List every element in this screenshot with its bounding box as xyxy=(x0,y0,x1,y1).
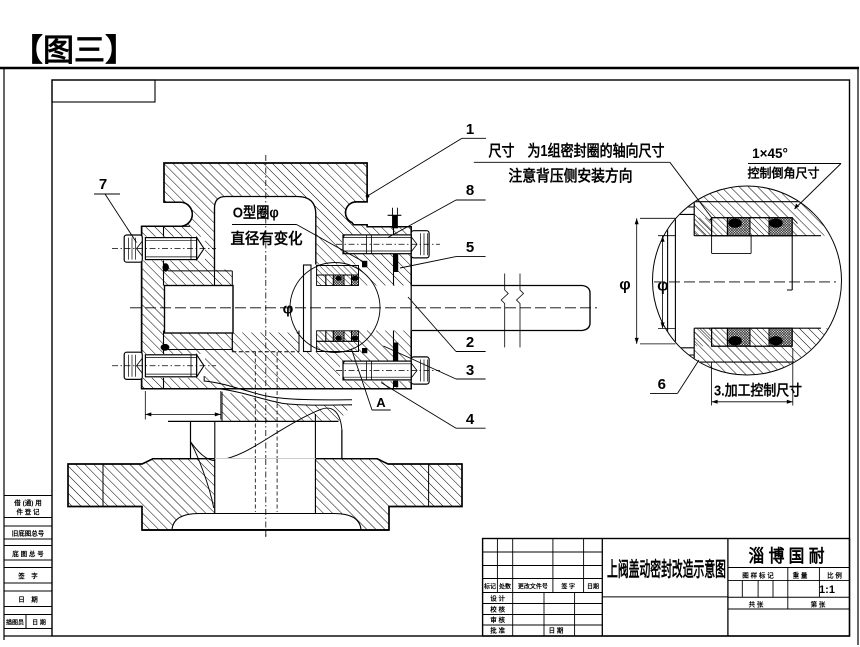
detail stem end step xyxy=(791,236,793,290)
flange bolt lines xyxy=(102,464,104,507)
detail groove upper seals xyxy=(694,218,711,236)
packing recess opening xyxy=(299,265,359,352)
svg-text:【图三】: 【图三】 xyxy=(12,33,136,68)
svg-text:φ: φ xyxy=(657,278,668,295)
socket head bolt right xyxy=(411,357,429,384)
hub edges xyxy=(190,421,192,458)
svg-text:3.加工控制尺寸: 3.加工控制尺寸 xyxy=(714,382,802,400)
svg-text:日 期: 日 期 xyxy=(32,619,46,627)
stem bore band xyxy=(165,286,413,331)
svg-text:淄 博 国 耐: 淄 博 国 耐 xyxy=(749,546,825,566)
svg-text:尺寸 为1组密封圈的轴向尺寸: 尺寸 为1组密封圈的轴向尺寸 xyxy=(489,141,665,160)
svg-text:图 样 标 记: 图 样 标 记 xyxy=(742,571,774,580)
O-ring right upper xyxy=(362,261,367,268)
left gland flange xyxy=(142,225,190,227)
svg-text:审 核: 审 核 xyxy=(490,615,505,624)
svg-text:处数: 处数 xyxy=(498,583,512,591)
svg-text:签 字: 签 字 xyxy=(560,583,575,591)
svg-text:共 张: 共 张 xyxy=(749,600,764,609)
svg-text:5: 5 xyxy=(466,239,474,256)
flange bottom face xyxy=(142,388,412,390)
svg-text:第 张: 第 张 xyxy=(811,600,826,609)
svg-text:校 核: 校 核 xyxy=(490,605,505,614)
flange bore dome xyxy=(172,514,361,530)
left margin table xyxy=(4,495,52,497)
body counterbore face xyxy=(168,420,339,422)
counterbore walls xyxy=(231,331,233,352)
hidden bore lines xyxy=(254,352,256,512)
svg-text:签 字: 签 字 xyxy=(17,571,38,580)
stem break lines xyxy=(501,274,508,348)
svg-text:7: 7 xyxy=(99,176,107,193)
svg-text:A: A xyxy=(376,395,386,410)
socket head bolt left xyxy=(124,235,142,262)
svg-text:日 期: 日 期 xyxy=(18,595,38,604)
svg-text:直径有变化: 直径有变化 xyxy=(231,230,303,248)
right gland flange xyxy=(367,226,411,228)
detail gland follower xyxy=(667,207,669,355)
svg-text:1: 1 xyxy=(466,121,474,138)
inner frame xyxy=(52,80,850,636)
follower nose band upper xyxy=(317,266,359,276)
machining control dimension xyxy=(711,362,713,406)
svg-text:底 图 总 号: 底 图 总 号 xyxy=(12,549,44,558)
top separator line xyxy=(0,67,859,69)
socket head bolt right xyxy=(411,231,429,258)
svg-text:6: 6 xyxy=(658,376,666,393)
detail circle A xyxy=(290,263,380,353)
svg-text:上阀盖动密封改造示意图: 上阀盖动密封改造示意图 xyxy=(607,557,726,581)
svg-text:日期: 日期 xyxy=(587,583,599,591)
detail centerline xyxy=(654,281,836,283)
svg-text:设 计: 设 计 xyxy=(490,594,505,603)
break wave tail into flange xyxy=(191,442,214,508)
flange bottom edge xyxy=(142,529,389,531)
O-ring right lower xyxy=(362,348,367,353)
stem left head xyxy=(165,286,234,334)
svg-text:日 期: 日 期 xyxy=(549,626,564,635)
hidden bore lines over flange xyxy=(254,459,256,512)
svg-text:注意背压侧安装方向: 注意背压侧安装方向 xyxy=(509,166,633,185)
svg-text:重 量: 重 量 xyxy=(793,571,808,580)
body neck tube walls xyxy=(214,421,216,512)
stem centerline xyxy=(130,307,597,309)
bottom flange section xyxy=(68,459,462,530)
detail groove lower seals xyxy=(694,328,711,346)
follower nose band lower xyxy=(317,341,359,351)
svg-text:8: 8 xyxy=(466,182,474,199)
O-ring left lower xyxy=(161,344,170,351)
svg-text:O型圈φ: O型圈φ xyxy=(233,204,279,222)
svg-text:批 准: 批 准 xyxy=(490,626,505,635)
socket head bolt left xyxy=(124,352,142,379)
top-left corner box xyxy=(52,80,155,102)
O-ring left upper xyxy=(163,263,169,271)
outer border left xyxy=(3,68,5,640)
svg-text:件 登 记: 件 登 记 xyxy=(16,507,40,516)
svg-text:比 例: 比 例 xyxy=(827,571,842,580)
svg-text:φ: φ xyxy=(283,301,294,318)
vent stud on right gland xyxy=(392,208,394,229)
stuffing box step lines xyxy=(168,270,232,272)
svg-text:1:1: 1:1 xyxy=(819,584,835,596)
svg-text:2: 2 xyxy=(466,334,474,351)
svg-text:φ: φ xyxy=(619,277,630,294)
svg-text:描图员: 描图员 xyxy=(6,619,24,627)
outer border right xyxy=(857,68,859,645)
bonnet bottom curves xyxy=(204,376,352,400)
detail housing upper xyxy=(694,184,844,236)
stem shaft xyxy=(412,286,590,331)
packing seal set lower xyxy=(317,331,326,342)
spacer ring right bars xyxy=(393,254,398,273)
break wave xyxy=(191,408,342,461)
main vertical centerline xyxy=(265,155,267,537)
neck opening xyxy=(215,197,316,271)
flange tube interior white xyxy=(215,458,316,514)
detail housing lower xyxy=(694,328,844,378)
svg-text:4: 4 xyxy=(466,411,475,428)
packing seal set upper xyxy=(317,275,326,286)
svg-text:旧底图总号: 旧底图总号 xyxy=(12,529,45,538)
title block left grid xyxy=(483,551,603,553)
gland sleeve xyxy=(304,265,312,352)
svg-text:3: 3 xyxy=(466,362,474,379)
groove chamfer line xyxy=(792,218,797,224)
detail inner diameter dimension xyxy=(658,235,676,237)
bonnet base section xyxy=(222,392,352,422)
svg-text:借 (通) 用: 借 (通) 用 xyxy=(13,498,41,507)
title block outline xyxy=(483,539,850,637)
svg-text:标记: 标记 xyxy=(483,583,496,591)
detail seal group bracket xyxy=(711,236,713,254)
bonnet body section xyxy=(142,163,412,389)
svg-text:控制倒角尺寸: 控制倒角尺寸 xyxy=(748,166,820,181)
detail outer diameter dimension xyxy=(640,217,675,219)
svg-text:更改文件号: 更改文件号 xyxy=(518,583,548,591)
svg-text:1×45°: 1×45° xyxy=(752,146,788,161)
counterbore opening xyxy=(232,265,316,333)
gland thickness dimension xyxy=(144,391,146,420)
